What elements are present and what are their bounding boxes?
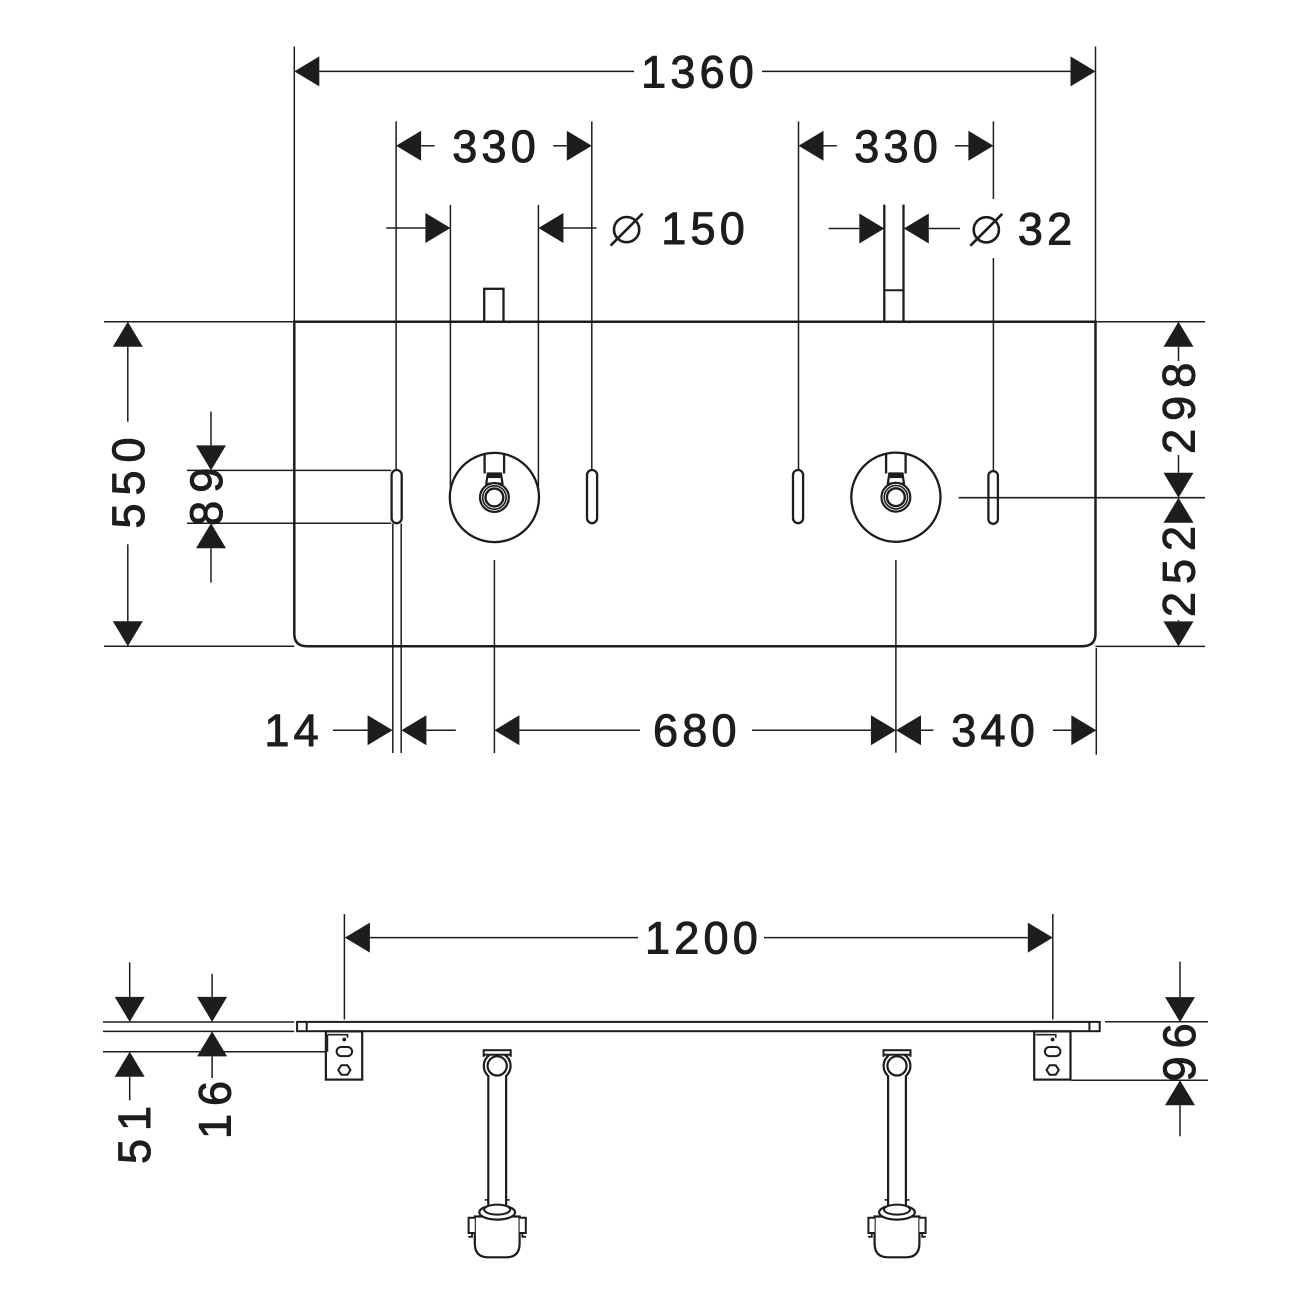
svg-text:1200: 1200 <box>645 913 762 964</box>
svg-text:150: 150 <box>661 203 749 254</box>
svg-text:51: 51 <box>109 1098 160 1164</box>
svg-text:89: 89 <box>181 460 232 526</box>
svg-text:32: 32 <box>1018 203 1076 254</box>
svg-text:1360: 1360 <box>641 46 758 97</box>
svg-text:550: 550 <box>103 429 154 528</box>
svg-text:16: 16 <box>189 1073 240 1139</box>
svg-text:330: 330 <box>452 121 540 172</box>
svg-text:330: 330 <box>854 121 942 172</box>
svg-text:14: 14 <box>264 705 322 756</box>
svg-text:252: 252 <box>1153 518 1204 617</box>
svg-text:680: 680 <box>653 705 741 756</box>
svg-text:298: 298 <box>1153 355 1204 454</box>
svg-text:340: 340 <box>951 705 1039 756</box>
svg-text:96: 96 <box>1154 1015 1205 1081</box>
